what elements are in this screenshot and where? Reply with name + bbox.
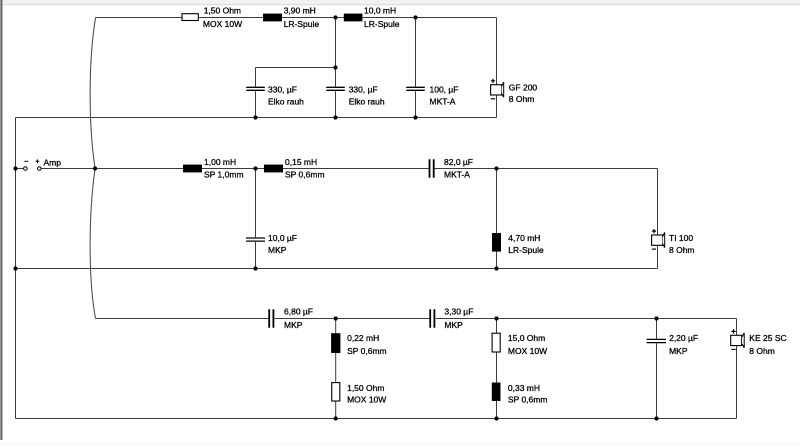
inductor 1,00 mH SP 1,0mm — [183, 157, 244, 180]
svg-text:KE 25 SC: KE 25 SC — [749, 333, 786, 343]
svg-text:0,22 mH: 0,22 mH — [347, 333, 379, 343]
svg-text:MOX 10W: MOX 10W — [203, 19, 242, 29]
svg-text:0,33 mH: 0,33 mH — [508, 383, 540, 393]
svg-text:MKT-A: MKT-A — [444, 169, 470, 179]
svg-text:SP 0,6mm: SP 0,6mm — [347, 346, 387, 356]
inductor 0,15 mH SP 0,6mm — [264, 157, 325, 180]
svg-text:8 Ohm: 8 Ohm — [669, 245, 695, 255]
speaker GF 200 8 Ohm — [491, 79, 538, 104]
svg-text:MKP: MKP — [669, 346, 688, 356]
node junction mid rail x=496.3 — [494, 166, 498, 170]
wire tweeter rail segment 3 — [436, 318, 737, 320]
node amp plus terminal — [36, 159, 42, 170]
svg-text:3,90 mH: 3,90 mH — [284, 6, 316, 16]
capacitor 10,0 uF MKP (shunt) — [246, 233, 297, 255]
svg-text:SP 0,6mm: SP 0,6mm — [285, 169, 325, 179]
svg-text:Elko rauh: Elko rauh — [268, 96, 304, 106]
wire elko1 leads — [255, 68, 257, 118]
node junction tweeter rail x=496.3 — [494, 316, 498, 320]
node junction woofer bottom rail x=335.5 — [333, 115, 337, 119]
wire mid bottom rail — [16, 268, 658, 270]
svg-text:10,0 mH: 10,0 mH — [364, 6, 396, 16]
capacitor 330 uF Elko rauh (second) — [326, 85, 385, 107]
svg-text:LR-Spule: LR-Spule — [284, 19, 320, 29]
wire KE25SC speaker leads — [736, 319, 738, 419]
wire 2,20uF leads — [656, 319, 658, 419]
wire TI100 speaker leads — [657, 169, 659, 269]
svg-text:330, µF: 330, µF — [349, 85, 378, 95]
wire mid rail from plus terminal to 82uF — [41, 168, 428, 170]
svg-text:15,0 Ohm: 15,0 Ohm — [508, 333, 545, 343]
node junction mid rail at left bus — [13, 166, 17, 170]
node junction bottom rail x=656 — [654, 416, 658, 420]
svg-text:TI 100: TI 100 — [669, 233, 693, 243]
svg-text:4,70 mH: 4,70 mH — [508, 233, 540, 243]
wire GF200 speaker leads — [496, 18, 498, 118]
wire tweeter branch1 leads x=336 — [335, 319, 337, 419]
svg-text:8 Ohm: 8 Ohm — [749, 346, 775, 356]
wire elko2 lower lead — [335, 91, 337, 117]
svg-text:MKP: MKP — [268, 245, 287, 255]
node amp minus terminal — [24, 161, 29, 170]
inductor 4,70 mH LR-Spule (shunt) — [492, 233, 544, 255]
inductor 10,0 mH LR-Spule — [344, 6, 400, 29]
svg-text:6,80 µF: 6,80 µF — [284, 306, 313, 316]
svg-text:LR-Spule: LR-Spule — [364, 19, 400, 29]
wire elko sub-rail — [256, 67, 336, 69]
capacitor 6,80 uF MKP (series, tweeter rail) — [269, 306, 313, 330]
wire bottom rail — [16, 418, 737, 420]
wire left negative bus — [15, 118, 17, 419]
svg-text:0,15 mH: 0,15 mH — [285, 157, 317, 167]
svg-text:3,30 µF: 3,30 µF — [444, 306, 473, 316]
svg-text:MKP: MKP — [284, 320, 303, 330]
inductor 0,22 mH SP 0,6mm (tweeter branch 1) — [331, 333, 387, 356]
svg-text:1,50 Ohm: 1,50 Ohm — [347, 383, 384, 393]
wire top rail — [96, 17, 497, 19]
capacitor 330 uF Elko rauh (first) — [246, 85, 304, 107]
node junction woofer bottom rail x=415.5 — [413, 115, 417, 119]
svg-text:SP 0,6mm: SP 0,6mm — [508, 394, 548, 404]
node junction mid rail x=255.5 — [253, 166, 257, 170]
svg-text:SP 1,0mm: SP 1,0mm — [204, 169, 244, 179]
wire mid rail from bus to minus terminal — [16, 168, 24, 170]
resistor 1,50 Ohm MOX 10W (tweeter branch 1) — [332, 383, 387, 405]
svg-text:100, µF: 100, µF — [430, 85, 459, 95]
wire drop from top rail to elko sub-rail at x=335.5 — [335, 18, 337, 87]
wire tweeter rail segment 2 — [275, 318, 430, 320]
capacitor 2,20 uF MKP (shunt) — [647, 333, 699, 356]
svg-text:10,0 µF: 10,0 µF — [268, 233, 297, 243]
svg-text:MOX 10W: MOX 10W — [508, 346, 547, 356]
resistor 1,50 Ohm MOX 10W (top rail) — [182, 6, 242, 29]
wire curved bus from top rail to mid rail — [90, 18, 95, 169]
node junction tweeter rail x=656 — [654, 316, 658, 320]
wire tweeter rail segment 1 — [96, 318, 269, 320]
wire 10uF MKP leads — [255, 169, 257, 269]
node junction bottom rail x=496.3 — [494, 416, 498, 420]
node junction elko sub-rail — [333, 65, 337, 69]
node junction bottom rail x=336 — [334, 416, 338, 420]
inductor 0,33 mH SP 0,6mm (tweeter branch 2) — [492, 383, 548, 405]
node junction woofer bottom rail x=255.5 — [253, 115, 257, 119]
speaker TI 100 8 Ohm — [652, 229, 695, 255]
node junction mid bottom rail x=255.5 — [253, 266, 257, 270]
svg-text:1,00 mH: 1,00 mH — [204, 157, 236, 167]
node junction mid bottom rail x=496.3 — [494, 266, 498, 270]
wire mid rail from 82uF to TI100 — [435, 168, 658, 170]
svg-text:330, µF: 330, µF — [268, 85, 297, 95]
svg-text:MOX 10W: MOX 10W — [347, 394, 386, 404]
node junction tweeter rail x=336 — [334, 316, 338, 320]
svg-text:Amp: Amp — [44, 157, 62, 167]
wire woofer bottom rail — [16, 117, 497, 119]
svg-text:GF 200: GF 200 — [509, 83, 538, 93]
inductor 3,90 mH LR-Spule — [263, 6, 319, 29]
speaker KE 25 SC 8 Ohm — [731, 329, 787, 356]
capacitor 82,0 uF MKT-A (series, mid rail) — [430, 157, 474, 180]
svg-text:2,20 µF: 2,20 µF — [669, 333, 698, 343]
wire 4,70mH shunt lead — [496, 169, 498, 269]
svg-text:MKP: MKP — [444, 320, 463, 330]
svg-text:Elko rauh: Elko rauh — [349, 96, 385, 106]
svg-text:8 Ohm: 8 Ohm — [509, 94, 535, 104]
svg-text:LR-Spule: LR-Spule — [508, 245, 544, 255]
capacitor 100 uF MKT-A — [406, 85, 458, 107]
wire tweeter branch2 leads x=496.3 — [496, 319, 498, 419]
node junction mid bottom rail at left bus — [13, 266, 17, 270]
svg-text:MKT-A: MKT-A — [430, 96, 456, 106]
svg-text:82,0 µF: 82,0 µF — [444, 157, 473, 167]
node junction top rail x=415.5 — [413, 15, 417, 19]
node junction mid rail at curved bus — [93, 166, 97, 170]
node junction top rail x=335.5 — [333, 15, 337, 19]
svg-text:1,50 Ohm: 1,50 Ohm — [204, 6, 241, 16]
wire drop 100uF at x=415.5 — [415, 18, 417, 118]
resistor 15,0 Ohm MOX 10W (tweeter branch 2) — [492, 333, 547, 356]
capacitor 3,30 uF MKP (series, tweeter rail) — [430, 306, 473, 330]
wire curved bus from mid rail to tweeter rail — [90, 169, 95, 319]
